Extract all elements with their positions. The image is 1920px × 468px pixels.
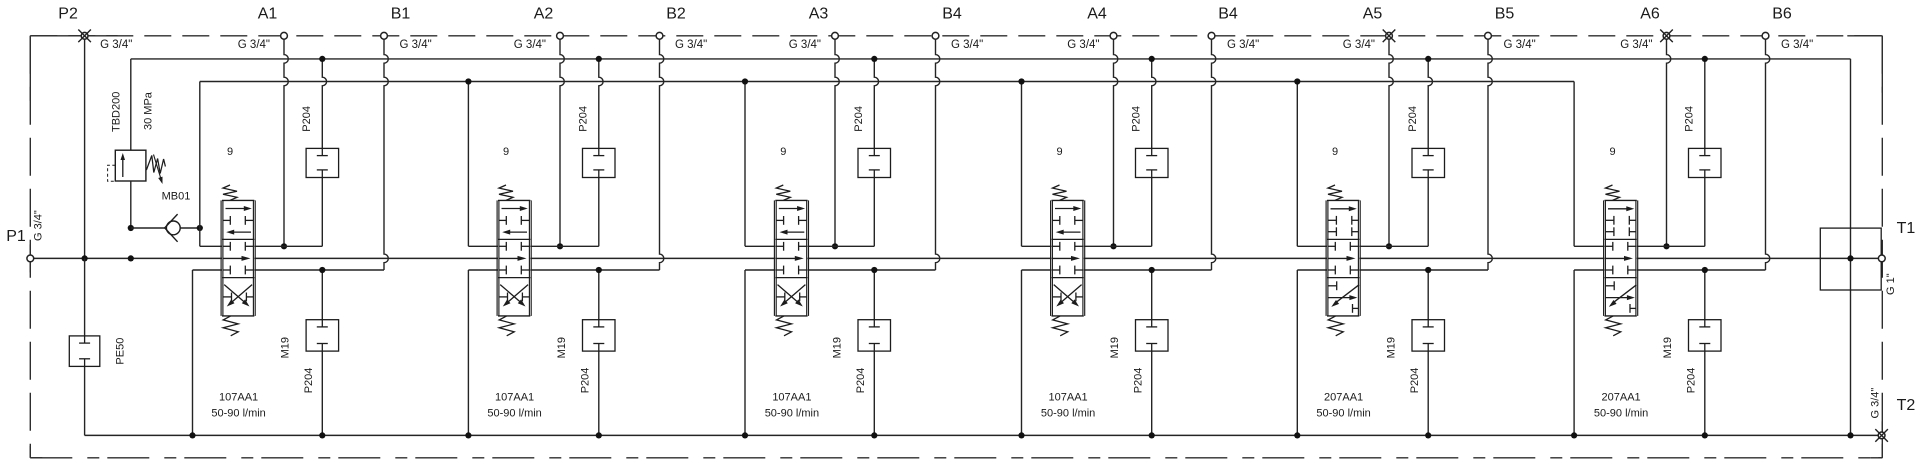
- svg-text:B2: B2: [666, 6, 686, 23]
- section 2 work-line A (rowB wire): [468, 245, 598, 247]
- directional control valve 6 (207AA1): [1604, 146, 1638, 336]
- svg-text:207AA1: 207AA1: [1602, 392, 1641, 404]
- svg-text:P204: P204: [1130, 106, 1142, 132]
- svg-text:50-90 l/min: 50-90 l/min: [1316, 407, 1370, 419]
- svg-text:P204: P204: [853, 106, 865, 132]
- svg-text:G 3/4": G 3/4": [1343, 39, 1375, 51]
- section 1 measuring port M19 with plug P204: [280, 267, 339, 439]
- port B6: [1762, 6, 1813, 271]
- svg-text:G 3/4": G 3/4": [1504, 39, 1536, 51]
- rail 2 : pressure feed rail: [200, 81, 1574, 83]
- svg-text:9: 9: [503, 146, 509, 158]
- svg-text:MB01: MB01: [162, 191, 191, 203]
- svg-text:207AA1: 207AA1: [1324, 392, 1363, 404]
- svg-text:P204: P204: [1686, 368, 1698, 394]
- section 3 feed wire from rail2 to valve P port: [742, 78, 748, 246]
- svg-text:B5: B5: [1495, 6, 1515, 23]
- svg-text:P204: P204: [855, 368, 867, 394]
- svg-text:50-90 l/min: 50-90 l/min: [765, 407, 819, 419]
- svg-text:P2: P2: [58, 6, 78, 23]
- plug PE50 on P2 line: [69, 258, 126, 435]
- svg-text:P204: P204: [1132, 368, 1144, 394]
- svg-text:107AA1: 107AA1: [772, 392, 811, 404]
- directional control valve 3 (107AA1): [774, 146, 808, 336]
- svg-text:M19: M19: [1662, 337, 1674, 358]
- section 3 label 107AA1: [765, 392, 819, 420]
- section 1 work-line A (rowB wire): [200, 245, 322, 247]
- svg-text:107AA1: 107AA1: [219, 392, 258, 404]
- svg-text:M19: M19: [832, 337, 844, 358]
- section 6 measuring port M19 with plug P204: [1662, 267, 1721, 439]
- svg-text:G 3/4": G 3/4": [675, 39, 707, 51]
- section 1 label 107AA1: [211, 392, 265, 420]
- svg-text:A5: A5: [1363, 6, 1383, 23]
- section 4 work-line B (rowC wire): [1018, 270, 1211, 439]
- svg-text:G 3/4": G 3/4": [1620, 39, 1652, 51]
- svg-text:M19: M19: [556, 337, 568, 358]
- section 6 feed wire from rail2 to valve P port: [1573, 82, 1575, 247]
- svg-text:50-90 l/min: 50-90 l/min: [487, 407, 541, 419]
- svg-text:9: 9: [1609, 146, 1615, 158]
- port A5: [1343, 6, 1396, 250]
- rail1 right end drop to T1/T2: [1847, 59, 1853, 439]
- P supply line from P1 to T1: [30, 257, 1882, 259]
- port A4: [1067, 6, 1118, 250]
- section 2 orifice P204 (top): [577, 56, 615, 247]
- svg-text:T1: T1: [1897, 220, 1916, 237]
- port A1: [238, 6, 289, 250]
- rail 1 : upper tank/return rail: [131, 58, 1851, 60]
- svg-text:T2: T2: [1897, 397, 1916, 414]
- port A2: [514, 6, 565, 250]
- svg-text:50-90 l/min: 50-90 l/min: [1594, 407, 1648, 419]
- svg-text:G 3/4": G 3/4": [789, 39, 821, 51]
- svg-text:PE50: PE50: [115, 338, 127, 365]
- svg-text:9: 9: [780, 146, 786, 158]
- pressure relief valve TBD200 30 MPa: [108, 91, 166, 261]
- svg-text:TBD200: TBD200: [111, 92, 123, 132]
- bottom tank rail to T2: [85, 434, 1882, 436]
- svg-text:9: 9: [1056, 146, 1062, 158]
- svg-text:50-90 l/min: 50-90 l/min: [1041, 407, 1095, 419]
- svg-text:G 3/4": G 3/4": [1227, 39, 1259, 51]
- svg-text:B6: B6: [1772, 6, 1792, 23]
- svg-text:9: 9: [227, 146, 233, 158]
- svg-text:P204: P204: [1407, 106, 1419, 132]
- svg-text:A1: A1: [258, 6, 278, 23]
- section 3 work-line A (rowB wire): [745, 245, 874, 247]
- svg-text:P204: P204: [580, 368, 592, 394]
- directional control valve 2 (107AA1): [497, 146, 531, 336]
- port B2: [656, 6, 707, 271]
- section 5 feed wire from rail2 to valve P port: [1294, 78, 1300, 246]
- rail2 left end / section1 feed through check valve node: [199, 82, 201, 247]
- svg-text:G 3/4": G 3/4": [33, 210, 45, 241]
- section 6 orifice P204 (top): [1683, 56, 1721, 247]
- section 3 measuring port M19 with plug P204: [832, 267, 891, 439]
- section 4 measuring port M19 with plug P204: [1109, 267, 1168, 439]
- T1 connection block: [1820, 228, 1881, 290]
- rail1 left end drop to relief valve: [130, 59, 132, 150]
- section 5 orifice P204 (top): [1407, 56, 1445, 247]
- section 1 work-line B (rowC wire): [189, 270, 384, 439]
- svg-text:G 3/4": G 3/4": [238, 39, 270, 51]
- svg-text:B4: B4: [1218, 6, 1238, 23]
- section 1 feed wire from rail2 to valve P port: [0, 0, 1, 1]
- section 4 label 107AA1: [1041, 392, 1095, 420]
- port B5: [1485, 6, 1536, 271]
- svg-text:P204: P204: [1683, 106, 1695, 132]
- section 2 feed wire from rail2 to valve P port: [465, 78, 471, 246]
- section 5 measuring port M19 with plug P204: [1385, 267, 1444, 439]
- port B4: [1208, 6, 1259, 271]
- svg-text:50-90 l/min: 50-90 l/min: [211, 407, 265, 419]
- port T1: [1878, 220, 1915, 295]
- svg-text:9: 9: [1332, 146, 1338, 158]
- svg-text:G 3/4": G 3/4": [400, 39, 432, 51]
- port P2 (plugged): [58, 6, 132, 262]
- svg-text:A6: A6: [1640, 6, 1660, 23]
- section 5 label 207AA1: [1316, 392, 1370, 420]
- section 2 measuring port M19 with plug P204: [556, 267, 615, 439]
- svg-text:30 MPa: 30 MPa: [143, 91, 155, 130]
- svg-text:G 3/4": G 3/4": [100, 39, 132, 51]
- section 2 work-line B (rowC wire): [465, 270, 659, 439]
- directional control valve 4 (107AA1): [1051, 146, 1085, 336]
- section 4 feed wire from rail2 to valve P port: [1018, 78, 1024, 246]
- svg-text:P204: P204: [1409, 368, 1421, 394]
- svg-text:P204: P204: [303, 368, 315, 394]
- svg-text:A4: A4: [1087, 6, 1107, 23]
- svg-text:P1: P1: [6, 228, 26, 245]
- svg-text:A2: A2: [534, 6, 554, 23]
- svg-text:G 3/4": G 3/4": [1869, 388, 1881, 419]
- svg-text:G 3/4": G 3/4": [1067, 39, 1099, 51]
- svg-text:M19: M19: [1109, 337, 1121, 358]
- port P1: [6, 210, 44, 262]
- svg-text:A3: A3: [809, 6, 829, 23]
- section 3 work-line B (rowC wire): [742, 270, 936, 439]
- directional control valve 1 (107AA1): [221, 146, 255, 336]
- port B1: [381, 6, 432, 271]
- svg-text:M19: M19: [280, 337, 292, 358]
- check valve MB01: [131, 191, 203, 242]
- svg-text:G 1": G 1": [1885, 273, 1897, 295]
- svg-text:107AA1: 107AA1: [495, 392, 534, 404]
- svg-text:M19: M19: [1385, 337, 1397, 358]
- svg-text:107AA1: 107AA1: [1049, 392, 1088, 404]
- section 4 work-line A (rowB wire): [1022, 245, 1152, 247]
- section 6 label 207AA1: [1594, 392, 1648, 420]
- section 1 orifice P204 (top): [301, 56, 339, 247]
- section 6 work-line A (rowB wire): [1574, 245, 1705, 247]
- section 4 orifice P204 (top): [1130, 56, 1168, 247]
- port A6: [1620, 6, 1673, 250]
- svg-text:B4: B4: [942, 6, 962, 23]
- port A3: [789, 6, 840, 250]
- port T2 (plugged): [1869, 388, 1915, 442]
- svg-text:G 3/4": G 3/4": [514, 39, 546, 51]
- svg-text:P204: P204: [577, 106, 589, 132]
- port B4: [932, 6, 983, 271]
- svg-text:G 3/4": G 3/4": [951, 39, 983, 51]
- section 5 work-line A (rowB wire): [1297, 245, 1428, 247]
- section 3 orifice P204 (top): [853, 56, 891, 247]
- section 6 work-line B (rowC wire): [1571, 270, 1766, 439]
- section 5 work-line B (rowC wire): [1294, 270, 1488, 439]
- section 2 label 107AA1: [487, 392, 541, 420]
- directional control valve 5 (207AA1): [1326, 146, 1360, 336]
- svg-text:P204: P204: [301, 106, 313, 132]
- svg-text:G 3/4": G 3/4": [1781, 39, 1813, 51]
- svg-text:B1: B1: [391, 6, 411, 23]
